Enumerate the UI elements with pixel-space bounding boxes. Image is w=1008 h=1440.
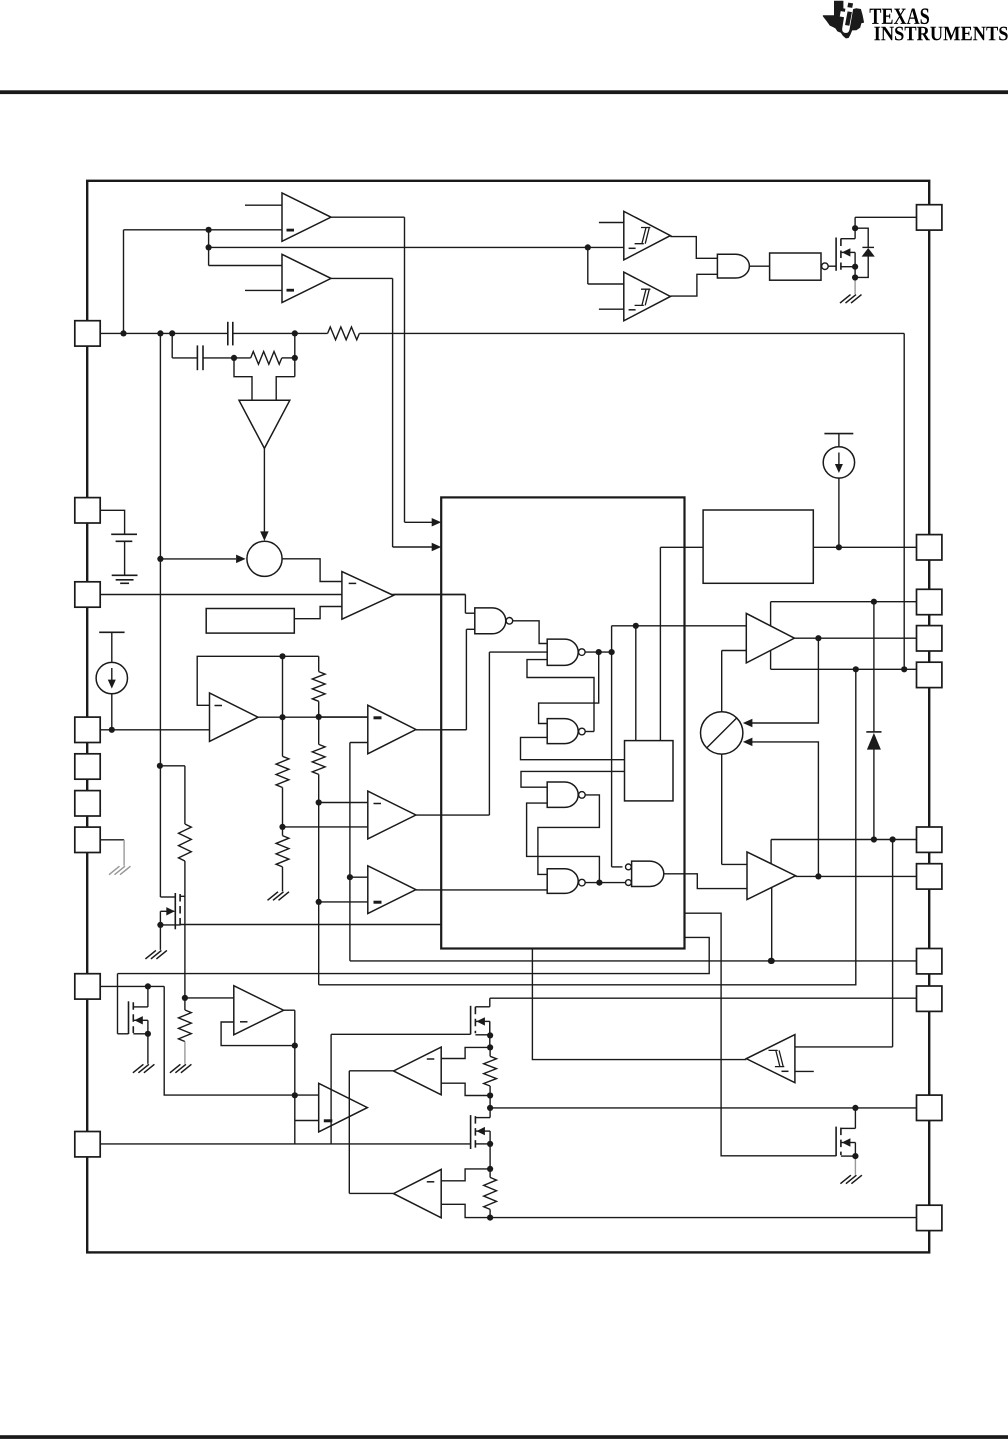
pin BP10: [917, 827, 942, 852]
pin SS: [75, 498, 100, 523]
wire right divider top: [318, 656, 320, 671]
transistor Q2: [174, 893, 176, 929]
wire divider tap to driver rail: [319, 669, 856, 985]
wire gate drop Q3: [117, 974, 119, 1034]
pin BOOT: [917, 589, 942, 614]
wire riser to NAND1: [465, 629, 467, 730]
wire riser from pin VIN rail to comparators: [123, 230, 125, 334]
wire to R7: [160, 765, 185, 767]
wire LS gate drive to Q5: [685, 913, 836, 1156]
wire C2 to R2: [203, 357, 251, 359]
NAND gate N2: [547, 639, 578, 665]
wire U14 out: [349, 1192, 393, 1194]
comparator U13: [394, 1047, 442, 1095]
wire triC lower input: [319, 901, 368, 903]
ground Q2: [145, 950, 156, 959]
wire N2 output: [585, 651, 612, 653]
wire Q3 drain: [147, 986, 149, 1007]
ground Q3: [133, 1064, 144, 1073]
NAND gate N4: [547, 782, 578, 807]
wire junction vertical: [208, 230, 210, 266]
wire to driver1 input: [612, 625, 747, 627]
ground divider: [268, 892, 279, 901]
wire schmitt1 stub input: [599, 222, 624, 224]
wire driver1 bottom rail stub: [770, 651, 772, 670]
pin RT: [75, 791, 100, 816]
wire BP10 to schmitt S3: [892, 840, 894, 1047]
wire U7 riser: [488, 652, 490, 815]
NAND gate N1: [475, 608, 506, 634]
wire U13 lower input: [441, 1083, 490, 1095]
wire comparator rail to schmitt buffers: [209, 246, 624, 248]
pin SS2: [917, 1095, 942, 1120]
wire driver2 top rail stub: [770, 840, 772, 864]
resistor R5: [312, 672, 325, 702]
current source I2: [824, 433, 853, 435]
wire I2 to BP5 rail: [838, 478, 840, 547]
pin VIN: [917, 205, 942, 230]
pin ILIM-SET: [75, 974, 100, 999]
wire COMP pin to PWM comparator: [100, 594, 466, 596]
wire gate Q2: [160, 896, 175, 898]
wire driver1 top rail stub: [770, 602, 772, 626]
capacitor C1: [227, 322, 229, 346]
ground R8: [170, 1064, 181, 1073]
wire N3 out crosscouple to N2: [527, 660, 594, 732]
transistor Q5: [835, 1127, 837, 1157]
driver U10 high side: [746, 613, 794, 663]
wire U9 out: [284, 1009, 295, 1011]
wire phase to LDRV node: [748, 742, 818, 877]
wire Q1 drain: [854, 228, 856, 239]
wire comp1 + input stub: [245, 204, 282, 206]
wire U9 node to ILIM net: [294, 1046, 296, 1144]
wire fault column: [349, 743, 351, 961]
wire error amp input left: [234, 358, 252, 400]
wire pin4 net inside box: [441, 729, 466, 731]
wire ramp to PWM comp: [294, 607, 342, 619]
phase splitter: [701, 712, 743, 754]
resistor R4: [276, 836, 289, 867]
resistor R10: [484, 1177, 497, 1209]
pin FB: [75, 582, 100, 607]
wire osc clk to N4: [521, 771, 625, 787]
capacitor C2: [196, 345, 198, 370]
wire comp1 - input: [124, 229, 283, 231]
comparator U12 ILIM: [319, 1083, 368, 1132]
wire osc to driver input node: [635, 626, 637, 741]
summing node: [247, 541, 282, 576]
TI logo texas bug: [823, 1, 864, 39]
PWM comparator U4: [342, 572, 394, 620]
pin HDRV: [917, 626, 942, 651]
current source I1: [99, 631, 124, 633]
wire S2 out to AND: [670, 274, 717, 296]
pin SW: [917, 662, 942, 687]
resistor R9: [484, 1056, 497, 1086]
resistor R7: [179, 824, 192, 861]
wire N2 out to N3: [539, 652, 599, 723]
wire HDRV pin: [794, 637, 916, 639]
wire comp2 + input: [209, 265, 282, 267]
wire error amp input right: [276, 377, 295, 401]
comparator U8: [368, 866, 416, 914]
wire phase to driver1 input: [721, 651, 723, 712]
pin BP5: [917, 535, 942, 560]
horizontal rule top: [0, 90, 1008, 94]
pin ILIM: [75, 1132, 100, 1157]
wire summer out to PWM comp: [282, 559, 342, 582]
driver U11 low side: [747, 852, 796, 900]
wire Q2 source sense to logic box: [180, 924, 441, 926]
wire SS pin to reference: [100, 510, 125, 534]
wire AND out to delay: [749, 265, 769, 267]
wire U13 out: [349, 1070, 393, 1072]
wire G2 out to driver2: [664, 874, 747, 889]
schmitt trigger S1: [624, 211, 671, 260]
wire to pin SGND: [350, 960, 917, 962]
pin VOUT: [917, 986, 942, 1011]
wire N5 out crosscouple to N4: [527, 803, 600, 883]
wire Q1 source: [854, 267, 856, 278]
pin VFB: [75, 717, 100, 742]
wire driver2 bottom to SGND: [771, 887, 773, 961]
wire SS pin rail: [100, 985, 164, 987]
outer IC boundary box: [87, 181, 929, 1253]
wire rail to summer: [160, 558, 236, 560]
wire REF pin to ground: [100, 839, 124, 841]
wire U8 out to NAND5: [416, 889, 547, 891]
wire N1 out to N2: [513, 621, 548, 644]
wire U13 upper input: [441, 1047, 490, 1058]
wire COMP pin rail: [100, 332, 228, 334]
wire I1 to SS pin rail: [111, 694, 113, 730]
wire Q3 source to ground: [147, 1034, 149, 1064]
transistor Q1: [835, 238, 837, 271]
pin REF: [75, 827, 100, 852]
NAND gate N5: [547, 869, 578, 894]
wire U14 lower input: [441, 1204, 490, 1217]
ground Q1: [840, 295, 851, 304]
block ramp generator: [206, 609, 294, 634]
wire to C2: [171, 333, 173, 358]
wire comp1 output: [331, 216, 405, 218]
diode D1 bootstrap: [873, 602, 875, 732]
wire comp2 output drop: [392, 278, 394, 547]
comparator U1 (UVLO high): [282, 193, 331, 241]
comparator U14: [394, 1169, 442, 1217]
wire phase diagonal: [707, 718, 736, 747]
wire into logic box lower: [393, 546, 434, 548]
ground REF pin: [109, 866, 120, 875]
wire Q1 source to ground: [854, 278, 856, 295]
wire U13/U14 shared output: [348, 1071, 350, 1194]
block delay: [770, 253, 821, 280]
wire Q5 drain to SS pin rail: [854, 1108, 856, 1129]
wire triC upper input: [350, 876, 368, 878]
wire SS pin to ref amp: [100, 729, 210, 731]
wire U14 upper input: [441, 1169, 490, 1181]
pin LGND: [917, 1205, 942, 1230]
wire schmitt2 input: [588, 283, 624, 285]
NAND gate N3: [547, 719, 578, 744]
wire Q4 drain riser: [489, 998, 491, 1007]
wire comp2 output: [331, 277, 393, 279]
transistor Q4: [470, 1006, 472, 1035]
wire BP10 pin rail: [771, 839, 916, 841]
wire S1 out to AND: [670, 237, 717, 259]
comparator U6: [368, 705, 416, 754]
wire osc clk to N3: [521, 737, 625, 759]
wire SW sense to pin: [490, 1107, 916, 1109]
comparator U2 (UVLO low): [282, 254, 331, 302]
TI logo text INSTRUMENTS: [874, 27, 1007, 41]
wire compensation drop right side: [903, 333, 905, 669]
wire into logic box upper: [405, 521, 434, 523]
wire to BP5 pin: [660, 546, 916, 548]
wire comp1 output drop: [404, 217, 406, 522]
resistor R2: [251, 352, 282, 365]
wire triA lower input: [350, 742, 368, 744]
wire junction vertical: [294, 333, 296, 376]
wire SS to U12: [164, 986, 319, 1095]
pin LDRV: [917, 864, 942, 889]
wire comp2 - input stub: [245, 289, 282, 291]
error amplifier U3 (down-pointing): [239, 400, 290, 448]
wire U6 out into logic: [416, 729, 467, 731]
wire to VOUT pin: [490, 997, 917, 999]
wire U9 feedback: [221, 1010, 295, 1045]
wire R7 to op-amp U9: [184, 861, 186, 998]
resistor R8: [179, 1010, 192, 1042]
wire long vertical rail: [159, 333, 161, 897]
wire error amp out to summer: [263, 448, 265, 533]
op-amp U9: [234, 986, 284, 1035]
wire N2 out riser/dropper: [611, 626, 613, 867]
resistor R1: [328, 327, 360, 340]
wire triB lower input: [283, 826, 368, 828]
wire SW pin rail: [771, 668, 917, 670]
transistor Q3: [128, 1001, 130, 1034]
wire U7 path to N2 mid input: [489, 651, 547, 653]
horizontal rule bottom: [0, 1435, 1008, 1439]
wire BOOT pin rail: [771, 601, 917, 603]
wire schmitt2 stub input: [599, 308, 624, 310]
wire U12 lower input: [295, 1120, 319, 1122]
wire ILIM pin rail: [100, 1143, 471, 1145]
battery reference symbol: [111, 533, 137, 535]
wire U5 feedback: [197, 656, 319, 705]
diode D2 Q1 body: [855, 228, 868, 247]
transistor Q6: [470, 1115, 472, 1149]
schmitt trigger S3: [746, 1035, 795, 1083]
wire Q4 gate: [331, 1033, 471, 1035]
wire Q6 drain: [489, 1108, 491, 1118]
wire triB upper input: [319, 802, 368, 804]
wire U5 out to comparator A: [258, 716, 368, 718]
junction dots: [120, 330, 126, 336]
earth ground reference: [112, 574, 138, 576]
wire ILIM riser to Q4 gate: [330, 1034, 332, 1144]
wire phase to driver2 input: [721, 754, 723, 864]
resistor R3: [276, 756, 289, 787]
wire logic to SS discharge net: [118, 937, 710, 973]
block regulator: [703, 510, 813, 583]
wire N5 out to AND2: [585, 882, 625, 884]
logic block box: [441, 497, 684, 948]
wire to LGND pin: [490, 1217, 916, 1219]
wire Q5 source to ground: [854, 1156, 856, 1175]
wire U7 out into logic: [416, 814, 490, 816]
wire to U9 input: [185, 997, 234, 999]
wire delay out to Q1 gate: [828, 265, 836, 267]
AND gate G2: [626, 864, 632, 870]
wire S3 stub input: [795, 1070, 814, 1072]
pin PGND: [917, 949, 942, 974]
schmitt trigger S2: [624, 272, 671, 321]
TI logo text TEXAS: [870, 8, 929, 24]
wire HDRV feedback to phase: [748, 638, 818, 723]
wire drop to schmitt2: [587, 247, 589, 284]
block oscillator: [625, 741, 674, 801]
wire left divider top: [282, 656, 284, 756]
comparator U7: [368, 791, 416, 839]
wire LDRV pin: [796, 875, 917, 877]
AND gate G1: [717, 254, 749, 278]
wire Q1 drain to pin: [855, 216, 916, 218]
wire N4 out to N5: [538, 795, 600, 875]
op-amp U5: [210, 693, 259, 741]
wire osc to VDD block: [659, 547, 661, 740]
wire schmitt S3 out to logic: [532, 949, 746, 1060]
pin COMP: [75, 321, 100, 346]
pin SYNC: [75, 754, 100, 779]
ground Q5: [840, 1175, 851, 1184]
resistor R6: [312, 744, 325, 774]
